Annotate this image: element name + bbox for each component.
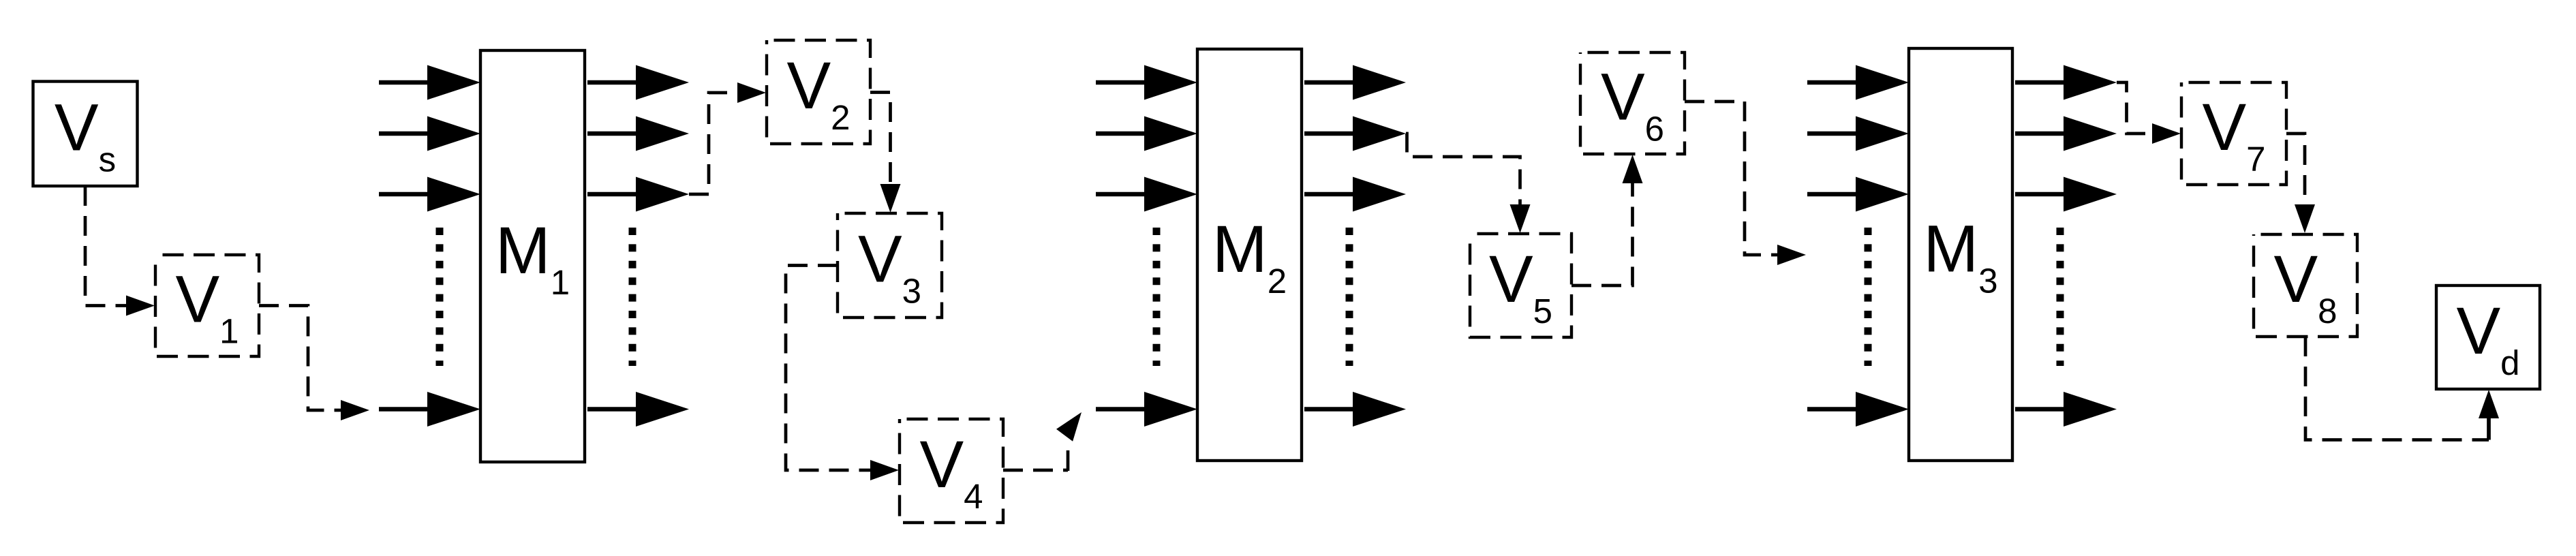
- input arrow 1 of M2: [1096, 80, 1156, 85]
- output arrow 3 of M2: [1304, 192, 1365, 197]
- output arrow 2 of M2: [1304, 132, 1365, 136]
- node V6 dashed box: [1580, 52, 1685, 154]
- edge V4 to M2: [1003, 469, 1068, 472]
- node Vd box: [2436, 285, 2540, 389]
- input arrow 1 of M1: [379, 80, 440, 85]
- node Vs box: [33, 82, 138, 187]
- input arrow 3 of M2: [1096, 192, 1156, 197]
- node V4 dashed box: [900, 419, 1003, 523]
- output arrow 4 of M3: [2015, 407, 2076, 412]
- input arrow 1 of M3: [1807, 80, 1868, 85]
- output arrow 3 of M1: [587, 192, 648, 197]
- edge V1 to M1: [259, 306, 344, 411]
- edge M1 to V2: [689, 93, 741, 194]
- edge V6 to M3: [1685, 102, 1781, 255]
- output arrow 1 of M2: [1304, 80, 1365, 85]
- edge V3 to V4: [786, 266, 874, 471]
- edge M3 to V7: [2117, 82, 2156, 134]
- input arrow 2 of M1: [379, 132, 440, 136]
- edge V8 to Vd: [2305, 337, 2489, 440]
- edge V2 to V3: [870, 93, 891, 188]
- input arrow 4 of M1: [379, 407, 440, 412]
- node V5 dashed box: [1470, 234, 1571, 337]
- input arrow 2 of M3: [1807, 132, 1868, 136]
- input arrow 4 of M3: [1807, 407, 1868, 412]
- input arrow 4 of M2: [1096, 407, 1156, 412]
- output arrow 1 of M3: [2015, 80, 2076, 85]
- node V8 dashed box: [2254, 234, 2357, 337]
- output arrow 4 of M1: [587, 407, 648, 412]
- output ellipsis dots of M2: [1346, 228, 1353, 366]
- edge M2 to V5: [1406, 134, 1520, 208]
- input arrow 3 of M3: [1807, 192, 1868, 197]
- input ellipsis dots of M1: [436, 228, 444, 366]
- module M1 box: [480, 50, 585, 462]
- edge Vs to V1: [85, 186, 129, 306]
- input ellipsis dots of M2: [1153, 228, 1161, 366]
- output arrow 2 of M1: [587, 132, 648, 136]
- output ellipsis dots of M1: [629, 228, 637, 366]
- node V7 dashed box: [2181, 82, 2286, 185]
- input ellipsis dots of M3: [1865, 228, 1872, 366]
- edge V5 to V6: [1571, 179, 1633, 285]
- node V3 dashed box: [838, 213, 942, 318]
- output ellipsis dots of M3: [2057, 228, 2064, 366]
- module M2 box: [1197, 49, 1302, 461]
- output arrow 1 of M1: [587, 80, 648, 85]
- output arrow 2 of M3: [2015, 132, 2076, 136]
- output arrow 3 of M3: [2015, 192, 2076, 197]
- module M3 box: [1909, 48, 2012, 461]
- input arrow 2 of M2: [1096, 132, 1156, 136]
- node V2 dashed box: [767, 40, 870, 144]
- output arrow 4 of M2: [1304, 407, 1365, 412]
- input arrow 3 of M1: [379, 192, 440, 197]
- edge V7 to V8: [2286, 134, 2305, 208]
- node V1 dashed box: [155, 255, 259, 356]
